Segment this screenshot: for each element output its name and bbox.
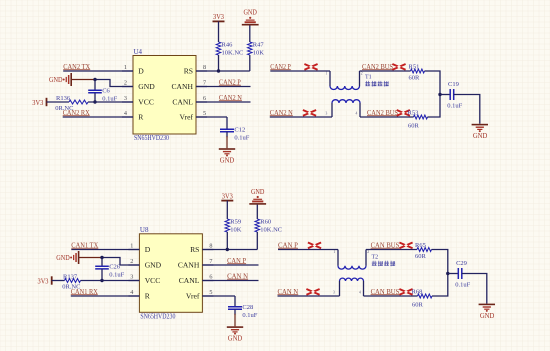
svg-text:RS: RS bbox=[184, 67, 193, 76]
svg-text:T2: T2 bbox=[372, 254, 379, 260]
resistor R65 60R bbox=[415, 242, 432, 260]
svg-text:R137: R137 bbox=[63, 274, 78, 281]
transformer T2 common-mode choke bbox=[333, 250, 395, 297]
no-ERC cross bbox=[399, 243, 412, 249]
no-ERC cross bbox=[399, 289, 412, 295]
svg-text:1: 1 bbox=[124, 64, 127, 71]
capacitor C12 0.1uF bbox=[220, 117, 250, 148]
wire to choke bottom bbox=[270, 116, 332, 118]
svg-text:0.1uF: 0.1uF bbox=[455, 282, 470, 289]
svg-text:60R: 60R bbox=[415, 253, 427, 260]
resistor R137 0R.NC bbox=[52, 274, 140, 291]
svg-text:4: 4 bbox=[356, 111, 358, 115]
svg-text:GND: GND bbox=[480, 312, 495, 320]
wire to choke top bbox=[270, 70, 330, 72]
svg-text:Vref: Vref bbox=[180, 113, 194, 122]
svg-text:2: 2 bbox=[361, 72, 363, 76]
junction bbox=[100, 279, 103, 282]
svg-text:2: 2 bbox=[124, 80, 127, 87]
junction bbox=[438, 93, 441, 96]
svg-text:SN65HVD230: SN65HVD230 bbox=[140, 312, 175, 320]
wire choke to bus resistor top bbox=[366, 249, 417, 251]
svg-text:GND: GND bbox=[220, 157, 235, 165]
choke value label (CJK) bbox=[365, 81, 370, 86]
svg-text:R60: R60 bbox=[260, 218, 271, 225]
junction bbox=[100, 256, 103, 259]
wire choke to bus resistor bottom bbox=[364, 295, 418, 297]
junction bbox=[446, 272, 449, 275]
svg-text:0.1uF: 0.1uF bbox=[109, 272, 124, 279]
svg-text:4: 4 bbox=[124, 110, 127, 117]
svg-text:GND: GND bbox=[251, 188, 265, 196]
no-ERC cross bbox=[397, 110, 410, 116]
svg-text:8: 8 bbox=[203, 64, 206, 71]
svg-text:GND: GND bbox=[243, 9, 257, 17]
wire choke to bus resistor top bbox=[360, 70, 411, 72]
svg-text:R65: R65 bbox=[415, 242, 426, 249]
svg-text:2: 2 bbox=[130, 258, 133, 265]
wire to choke top bbox=[278, 249, 338, 251]
svg-text:0.1uF: 0.1uF bbox=[242, 312, 257, 319]
svg-text:3V3: 3V3 bbox=[222, 192, 233, 200]
svg-text:C12: C12 bbox=[234, 127, 245, 134]
svg-text:3V3: 3V3 bbox=[213, 13, 224, 21]
svg-text:C28: C28 bbox=[242, 304, 253, 311]
svg-text:1: 1 bbox=[326, 72, 328, 76]
resistor R47 10K bbox=[248, 25, 265, 71]
junction bbox=[93, 78, 96, 81]
svg-text:CANL: CANL bbox=[172, 98, 193, 107]
no-ERC cross bbox=[303, 110, 316, 116]
svg-text:D: D bbox=[138, 67, 144, 76]
svg-text:60R: 60R bbox=[412, 301, 424, 308]
svg-text:1: 1 bbox=[130, 243, 133, 250]
wire cap to ground bbox=[454, 95, 480, 124]
wire CAN1 RX to pin 4 bbox=[71, 295, 140, 297]
capacitor C19 0.1uF bbox=[440, 81, 463, 110]
no-ERC cross bbox=[304, 64, 317, 70]
svg-text:R68: R68 bbox=[412, 289, 423, 296]
svg-text:3: 3 bbox=[124, 95, 127, 102]
IC U8 SN65HVD230 bbox=[128, 226, 213, 320]
svg-text:60R: 60R bbox=[409, 75, 421, 82]
IC U4 SN65HVD230 bbox=[122, 48, 207, 142]
wire bus vertical bbox=[425, 71, 441, 117]
svg-text:GND: GND bbox=[138, 82, 155, 91]
svg-text:GND: GND bbox=[228, 335, 243, 343]
ground GND right bbox=[479, 304, 495, 306]
svg-text:CANH: CANH bbox=[178, 261, 200, 270]
svg-text:3: 3 bbox=[333, 290, 335, 294]
svg-text:3V3: 3V3 bbox=[38, 277, 49, 285]
svg-text:C19: C19 bbox=[448, 81, 459, 88]
svg-text:0.1uF: 0.1uF bbox=[234, 135, 249, 142]
wire pin 5 Vref bbox=[202, 295, 235, 297]
wire CAN2 RX to pin 4 bbox=[63, 116, 133, 118]
svg-text:0.1uF: 0.1uF bbox=[447, 103, 462, 110]
svg-text:GND: GND bbox=[49, 76, 63, 84]
svg-text:5: 5 bbox=[203, 110, 206, 117]
svg-text:R136: R136 bbox=[56, 95, 71, 102]
wire pin 8 RS bbox=[196, 70, 250, 72]
svg-text:4: 4 bbox=[359, 290, 361, 294]
svg-text:VCC: VCC bbox=[138, 98, 154, 107]
wire to choke bottom bbox=[278, 295, 340, 297]
svg-text:R53: R53 bbox=[408, 110, 419, 117]
resistor R60 10K bbox=[255, 205, 282, 250]
ground GND right bbox=[472, 124, 488, 126]
wire pin 6 CANL bbox=[202, 280, 258, 282]
ground GND below cap bbox=[227, 326, 243, 328]
svg-text:U8: U8 bbox=[140, 226, 149, 234]
wire pin 8 RS bbox=[202, 249, 257, 251]
svg-text:2: 2 bbox=[367, 250, 369, 254]
svg-text:GND: GND bbox=[473, 132, 488, 140]
svg-text:C6: C6 bbox=[102, 87, 110, 94]
svg-text:R47: R47 bbox=[253, 41, 265, 48]
svg-text:CANL: CANL bbox=[179, 276, 200, 285]
capacitor C26 0.1uF bbox=[95, 258, 124, 281]
svg-text:GND: GND bbox=[145, 261, 162, 270]
svg-text:C29: C29 bbox=[456, 260, 467, 267]
svg-text:R51: R51 bbox=[409, 63, 420, 70]
transformer T1 common-mode choke bbox=[326, 71, 389, 117]
svg-text:GND: GND bbox=[56, 254, 70, 262]
svg-text:C26: C26 bbox=[109, 264, 121, 271]
svg-text:6: 6 bbox=[203, 95, 206, 102]
wire cap to ground bbox=[462, 274, 487, 304]
svg-text:U4: U4 bbox=[134, 48, 143, 56]
capacitor C29 0.1uF bbox=[448, 260, 471, 289]
junction bbox=[93, 100, 96, 103]
svg-text:R59: R59 bbox=[230, 218, 241, 225]
svg-text:4: 4 bbox=[130, 289, 133, 296]
wire ground to pin 2 bbox=[102, 258, 139, 266]
wire ground to pin 2 bbox=[95, 80, 133, 87]
svg-text:RS: RS bbox=[190, 245, 199, 254]
svg-text:7: 7 bbox=[203, 80, 206, 87]
resistor R136 0R.NC bbox=[47, 95, 134, 112]
svg-text:SN65HVD230: SN65HVD230 bbox=[134, 134, 169, 142]
wire choke to bus resistor bottom bbox=[360, 116, 414, 118]
svg-text:10K: 10K bbox=[253, 50, 264, 57]
ground GND below cap bbox=[219, 148, 235, 150]
wire CAN1 TX to pin 1 bbox=[71, 249, 139, 251]
resistor R51 60R bbox=[409, 63, 425, 81]
wire pin 7 CANH bbox=[202, 264, 258, 266]
resistor R68 60R bbox=[412, 289, 433, 309]
svg-text:5: 5 bbox=[209, 289, 212, 296]
svg-text:VCC: VCC bbox=[145, 276, 161, 285]
junction bbox=[217, 69, 220, 72]
svg-text:3: 3 bbox=[130, 274, 133, 281]
choke value label (CJK) bbox=[372, 261, 377, 266]
svg-text:6: 6 bbox=[209, 274, 212, 281]
wire pin 6 CANL bbox=[196, 101, 251, 103]
svg-text:D: D bbox=[145, 245, 151, 254]
capacitor C6 0.1uF bbox=[88, 80, 117, 103]
svg-text:60R: 60R bbox=[408, 122, 420, 129]
svg-text:Vref: Vref bbox=[186, 292, 200, 301]
wire pin 5 Vref bbox=[196, 116, 227, 118]
no-ERC cross bbox=[306, 289, 319, 295]
svg-text:10K: 10K bbox=[230, 227, 242, 234]
svg-text:T1: T1 bbox=[365, 75, 372, 81]
svg-text:8: 8 bbox=[209, 243, 212, 250]
svg-text:CANH: CANH bbox=[171, 82, 193, 91]
junction bbox=[226, 248, 229, 251]
svg-text:10K.NC: 10K.NC bbox=[222, 50, 244, 57]
resistor R59 10K.NC bbox=[225, 201, 242, 250]
svg-text:7: 7 bbox=[209, 258, 212, 265]
no-ERC cross bbox=[392, 64, 405, 70]
wire pin 7 CANH bbox=[196, 86, 251, 88]
resistor R53 60R bbox=[408, 110, 428, 130]
svg-text:3V3: 3V3 bbox=[32, 99, 43, 107]
svg-text:3: 3 bbox=[326, 111, 328, 115]
svg-text:1: 1 bbox=[334, 250, 336, 254]
svg-text:10K.NC: 10K.NC bbox=[260, 227, 282, 234]
capacitor C28 0.1uF bbox=[228, 296, 258, 326]
no-ERC cross bbox=[308, 243, 321, 249]
resistor R46 10K.NC bbox=[216, 21, 243, 71]
wire CAN2 TX to pin 1 bbox=[63, 70, 133, 72]
svg-text:R46: R46 bbox=[222, 41, 234, 48]
wire bus vertical bbox=[432, 250, 448, 297]
